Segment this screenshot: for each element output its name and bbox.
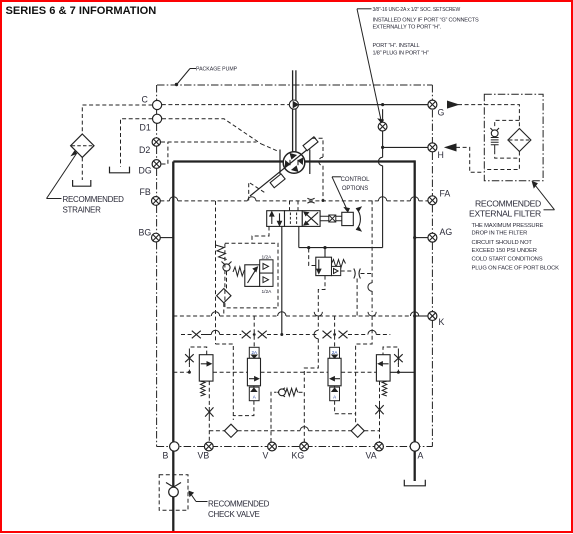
shaft coupler circle with arrow <box>289 100 298 109</box>
valve V3 main box <box>328 358 341 386</box>
valve V3 lower box A <box>330 386 340 401</box>
junction envelope on load-sense line <box>322 199 325 202</box>
main line left vertical (to port B) <box>172 162 174 532</box>
valve V1 box <box>199 355 213 381</box>
bleed drain to KG line (dashed) <box>304 276 357 388</box>
bleed valve box <box>316 257 332 275</box>
label VB <box>198 451 210 461</box>
H pilot vertical with jump over main line <box>378 147 382 247</box>
shuttle feed line left (dashed) <box>216 244 234 420</box>
filter outlet (dashed) <box>484 152 519 170</box>
port D2 <box>152 138 160 146</box>
svg-text:SERIES 6 & 7 INFORMATION: SERIES 6 & 7 INFORMATION <box>6 5 157 17</box>
port AG <box>428 233 437 242</box>
package pump boundary top edge <box>157 84 432 86</box>
strainer drain line to tank (dashed) <box>81 157 83 180</box>
compensator actuator rod <box>320 216 342 221</box>
orifice on load-sense line <box>307 198 314 203</box>
svg-text:EXTERNAL FILTER: EXTERNAL FILTER <box>469 208 541 218</box>
valve V1 spring <box>201 381 206 396</box>
fixed orifice (facing arcs) <box>354 269 361 279</box>
svg-text:STRAINER: STRAINER <box>63 206 102 215</box>
note text 3/8 setscrew <box>373 7 479 31</box>
label FA <box>440 189 451 199</box>
label C <box>142 94 149 104</box>
G line to external filter (dashed) <box>458 104 484 106</box>
relief pilot box upper with label 1/2A <box>260 255 273 274</box>
package pump boundary left edge <box>156 85 158 447</box>
svg-text:RECOMMENDED: RECOMMENDED <box>63 195 125 204</box>
line port C to coupler (dashed) <box>162 104 289 106</box>
setscrew symbol (crossed circle) <box>378 122 387 131</box>
manifold line to port K (dashed with jumps) <box>173 312 428 316</box>
main line right vertical (to port A) <box>414 160 416 446</box>
relief inlet spring (diagonal) <box>216 245 227 260</box>
port A <box>410 442 419 451</box>
external filter leader arrow <box>532 182 554 210</box>
port DG <box>152 160 161 169</box>
K stub to main line <box>413 314 428 317</box>
valve V4 spring <box>382 381 387 396</box>
setscrew note leader line <box>357 9 383 123</box>
label H <box>438 150 444 160</box>
filter note text <box>472 223 560 271</box>
recommended check valve enclosure (dash-dot box) <box>159 475 188 511</box>
control option box <box>342 212 354 225</box>
orifice pair V2 with pilot junction <box>242 316 267 347</box>
compensator valve body section 2 (metering) <box>285 211 303 227</box>
line coupler to port G (solid) <box>299 104 429 106</box>
svg-text:C: C <box>142 94 149 104</box>
label PACKAGE PUMP <box>196 67 238 73</box>
bypass spring <box>491 138 499 151</box>
valve V4 drain with orifice to VA <box>375 381 383 442</box>
label G <box>438 108 445 118</box>
port H inflow arrow <box>446 144 457 151</box>
orifice network line (dashed) <box>181 330 390 334</box>
package pump boundary right edge <box>431 85 433 447</box>
label CONTROL OPTIONS <box>341 177 370 192</box>
pilot drop to control valve <box>298 227 300 248</box>
swashplate arm diagonal <box>250 143 316 197</box>
pump circle (variable displacement pump) <box>283 152 305 174</box>
package pump boundary bottom edge <box>157 446 433 448</box>
svg-text:3/8”-16 UNC-2A x 1/2” SOC. SET: 3/8”-16 UNC-2A x 1/2” SOC. SETSCREW <box>373 7 461 13</box>
relief pilot box lower with label 1/2A <box>260 273 273 295</box>
svg-text:EXCEED 150 PSI UNDER: EXCEED 150 PSI UNDER <box>472 248 537 254</box>
KG drain line (dashed) <box>303 392 305 442</box>
setscrew to H-line vertical <box>382 131 384 147</box>
filter element diamond <box>508 129 531 152</box>
svg-text:CONTROL: CONTROL <box>341 177 370 183</box>
shuttle diamond VA <box>351 424 364 437</box>
svg-text:FB: FB <box>140 187 151 197</box>
tank symbol under strainer branch <box>73 180 91 186</box>
case drain D1 branch to tank (dashed) <box>121 119 153 167</box>
pilot branch from LS line (dashed) <box>215 201 217 244</box>
external filter enclosure (dash-dot box) <box>484 94 543 180</box>
svg-text:H: H <box>438 150 444 160</box>
valve V2 drop to shuttle (dashed) <box>233 401 254 416</box>
svg-text:INSTALLED ONLY IF PORT “G” CON: INSTALLED ONLY IF PORT “G” CONNECTS <box>373 18 479 24</box>
svg-text:FA: FA <box>440 189 451 199</box>
svg-text:D1: D1 <box>140 123 151 133</box>
svg-text:BG: BG <box>139 227 152 237</box>
valve V2 pilot box 2A <box>249 347 259 358</box>
control options leader arrow <box>332 177 349 212</box>
port BG <box>152 233 161 242</box>
relief drop to manifold (dashed) <box>223 303 225 316</box>
label V <box>263 451 269 461</box>
control case drain (dashed) <box>356 201 377 425</box>
relief valve spring <box>233 267 244 276</box>
svg-text:RECOMMENDED: RECOMMENDED <box>208 500 270 509</box>
pump drive shaft (double line) <box>293 70 296 151</box>
pump case envelope (dashed outline) <box>249 138 323 200</box>
H return line from filter (dashed) <box>456 147 484 172</box>
svg-text:EXTERNALLY TO PORT “H”.: EXTERNALLY TO PORT “H”. <box>373 25 442 31</box>
svg-text:A: A <box>253 395 256 400</box>
port V stub up to check (dashed) <box>271 392 277 442</box>
bleed pilot tap (dashed) <box>309 249 316 266</box>
suction line from port C to strainer (dashed) <box>82 105 152 134</box>
valve V4 box <box>376 355 390 381</box>
bleed valve feed <box>324 248 326 258</box>
compensator valve body section 3 (crossed) <box>302 211 320 227</box>
valve V1 pilot loop with orifice <box>185 347 207 374</box>
svg-text:KG: KG <box>292 451 305 461</box>
junction compensator drain on orifice line <box>280 333 283 336</box>
label RECOMMENDED STRAINER <box>63 195 125 215</box>
bypass branch bottom (dashed) <box>495 150 520 158</box>
H line horizontal <box>383 146 428 148</box>
label KG <box>292 451 305 461</box>
port FB <box>152 197 161 206</box>
AG stub to main line <box>413 236 428 239</box>
compensator outlet solid drop <box>281 227 283 335</box>
load sense line FB to FA (dashed with jumps) <box>160 197 428 201</box>
label DG <box>139 166 152 176</box>
svg-text:PLUG ON FACE OF PORT BLOCK: PLUG ON FACE OF PORT BLOCK <box>472 265 560 271</box>
svg-text:1/8” PLUG IN PORT “H”: 1/8” PLUG IN PORT “H” <box>373 50 429 56</box>
title SERIES 6 &amp; 7 INFORMATION <box>6 5 157 17</box>
svg-text:2A: 2A <box>251 350 257 355</box>
label K <box>439 317 445 327</box>
svg-text:G: G <box>438 108 445 118</box>
svg-text:V: V <box>263 451 269 461</box>
work line dashed y=372.3 <box>173 371 414 374</box>
junction dots on pilot line <box>307 246 327 249</box>
label D2 <box>139 145 150 155</box>
compensator valve body section 1 (arrows) <box>267 211 285 227</box>
variable orifice single <box>192 331 201 339</box>
swashplate actuator box upper <box>303 137 318 151</box>
package pump label leader <box>175 69 196 87</box>
junction dot above setscrew <box>381 103 384 106</box>
port C <box>153 100 162 109</box>
tail line below port A <box>414 447 416 482</box>
svg-text:RECOMMENDED: RECOMMENDED <box>475 198 541 208</box>
svg-text:1/2A: 1/2A <box>262 289 273 295</box>
label A <box>418 451 424 461</box>
svg-text:COLD START CONDITIONS: COLD START CONDITIONS <box>472 257 543 263</box>
pilot check drop (dashed) <box>226 271 228 288</box>
label RECOMMENDED CHECK VALVE <box>208 500 270 520</box>
tank symbol below port A <box>404 480 425 486</box>
label BG <box>139 227 152 237</box>
DG jog up to D2 line (dashed) <box>162 142 168 164</box>
svg-text:2A: 2A <box>332 350 338 355</box>
svg-text:OPTIONS: OPTIONS <box>342 186 368 192</box>
note text port H plug <box>373 43 429 56</box>
mid check valve with spring <box>278 388 304 397</box>
setscrew to G-line vertical <box>382 109 384 122</box>
port FA <box>428 196 437 205</box>
swashplate actuator box lower <box>270 174 285 188</box>
valve V4 pilot loop with orifice <box>383 347 403 372</box>
port VA <box>375 442 384 451</box>
port B <box>170 442 179 451</box>
pump flange side plates <box>280 150 310 175</box>
svg-text:CIRCUIT SHOULD NOT: CIRCUIT SHOULD NOT <box>472 240 533 246</box>
svg-text:CHECK VALVE: CHECK VALVE <box>208 510 260 519</box>
BG stub to main line <box>160 237 174 239</box>
shuttle line y=430.8 (dashed with jump at KG) <box>209 427 379 431</box>
port V <box>268 442 277 451</box>
bleed valve spring <box>332 260 346 268</box>
case drain D1 line to pump envelope (dashed) <box>162 119 261 144</box>
orifice pair V3 with pilot junction <box>323 316 348 347</box>
bleed pilot box <box>332 266 341 275</box>
svg-text:THE MAXIMUM PRESSURE: THE MAXIMUM PRESSURE <box>472 223 544 229</box>
check valve leader arrow <box>189 491 208 501</box>
svg-text:PORT “H”. INSTALL: PORT “H”. INSTALL <box>373 43 420 49</box>
label D1 <box>140 123 151 133</box>
relief enclosure (dashed box) <box>225 243 278 308</box>
valve V3 drop to shuttle (dashed) <box>335 401 356 414</box>
port VB <box>204 442 213 451</box>
relief link to compensator (dashed) <box>252 227 269 244</box>
pilot check valve seat and ball <box>222 262 232 272</box>
svg-text:VB: VB <box>198 451 210 461</box>
pump rotation arrows <box>285 154 302 172</box>
port D1 <box>153 114 162 123</box>
label AG <box>440 227 453 237</box>
junction dot H line <box>381 146 384 149</box>
compensator pilot lines from case (dashed) <box>290 201 299 211</box>
valve V2 lower box A <box>249 386 259 401</box>
pilot cross line y=247.6 <box>299 247 383 249</box>
valve V1 drain with orifice to VB <box>205 381 213 442</box>
label B <box>163 451 169 461</box>
tank symbol on D1 branch <box>110 167 130 173</box>
control stroke arc with arrowheads <box>357 207 362 231</box>
filter inlet line (dashed) <box>484 105 519 129</box>
svg-text:A: A <box>333 395 336 400</box>
svg-text:DG: DG <box>139 166 152 176</box>
port G <box>428 100 437 109</box>
relief valve main box <box>245 265 260 287</box>
svg-text:A: A <box>418 451 424 461</box>
check valve seat and ball <box>166 483 181 497</box>
recommended strainer filter diamond <box>71 134 94 157</box>
port H <box>428 143 437 152</box>
svg-text:DROP IN THE FILTER: DROP IN THE FILTER <box>472 230 528 236</box>
svg-text:1/2A: 1/2A <box>262 255 273 261</box>
svg-text:VA: VA <box>366 451 377 461</box>
rod adjuster box <box>329 215 336 222</box>
valve V2 main box <box>247 358 260 386</box>
strainer leader arrow <box>47 151 77 198</box>
shuttle diamond VB <box>224 424 237 437</box>
main pressure line (pump outlet, horizontal) <box>173 160 414 162</box>
svg-text:AG: AG <box>440 227 453 237</box>
shuttle diamond left <box>217 289 231 303</box>
label VA <box>366 451 377 461</box>
svg-text:D2: D2 <box>139 145 150 155</box>
label FB <box>140 187 151 197</box>
svg-text:B: B <box>163 451 169 461</box>
port KG <box>300 442 309 451</box>
bypass check valve <box>490 128 499 137</box>
bleed pilot to orifice (dashed) <box>341 271 372 274</box>
svg-text:PACKAGE PUMP: PACKAGE PUMP <box>196 67 238 73</box>
port K <box>428 312 437 321</box>
svg-text:K: K <box>439 317 445 327</box>
port G outflow arrow <box>448 101 459 108</box>
label RECOMMENDED EXTERNAL FILTER <box>469 198 541 218</box>
valve V3 pilot box 2A <box>330 347 340 358</box>
case drain D2 line (dashed) <box>161 141 257 143</box>
bypass branch top (dashed) <box>495 120 520 128</box>
